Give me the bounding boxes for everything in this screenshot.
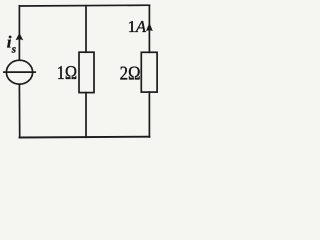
svg-text:2Ω: 2Ω — [120, 63, 141, 84]
svg-text:s: s — [11, 43, 16, 55]
svg-text:1A: 1A — [128, 17, 147, 36]
svg-text:1Ω: 1Ω — [57, 63, 78, 84]
